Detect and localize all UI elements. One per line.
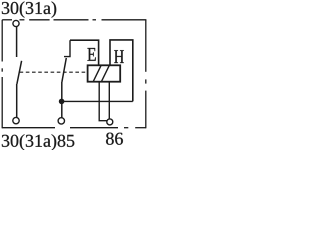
relay outline right dash-dot	[145, 20, 147, 129]
heating element hatched	[88, 65, 121, 81]
label 86 bottom	[106, 133, 123, 145]
wire 85 junction to H frame	[62, 100, 133, 102]
wire element to terminal 86 left	[99, 82, 107, 121]
terminal 30(31a) bottom	[13, 117, 19, 123]
wire terminal 30(31a) bottom	[16, 84, 18, 117]
wire terminal 30 top	[16, 27, 18, 57]
junction dot 85	[59, 99, 65, 105]
wire element to terminal 86 right	[108, 82, 110, 119]
terminal 86	[107, 119, 113, 125]
housing E	[70, 40, 99, 65]
linkage dashed	[20, 71, 88, 73]
switch blade middle	[62, 58, 66, 82]
label 30(31a)85 bottom	[2, 134, 74, 150]
relay outline top dash-dot	[2, 19, 146, 21]
wire terminal 85	[61, 82, 63, 118]
contact stub middle switch	[64, 40, 70, 56]
terminal 85	[58, 118, 64, 124]
terminal 30 top	[13, 20, 19, 26]
label H	[114, 50, 124, 63]
housing H	[110, 40, 133, 102]
relay outline bottom dash-dot	[2, 127, 146, 129]
label 30(31a) top	[2, 1, 56, 17]
label E	[87, 48, 95, 61]
relay outline left dash-dot	[1, 20, 3, 129]
switch blade left	[17, 61, 22, 84]
